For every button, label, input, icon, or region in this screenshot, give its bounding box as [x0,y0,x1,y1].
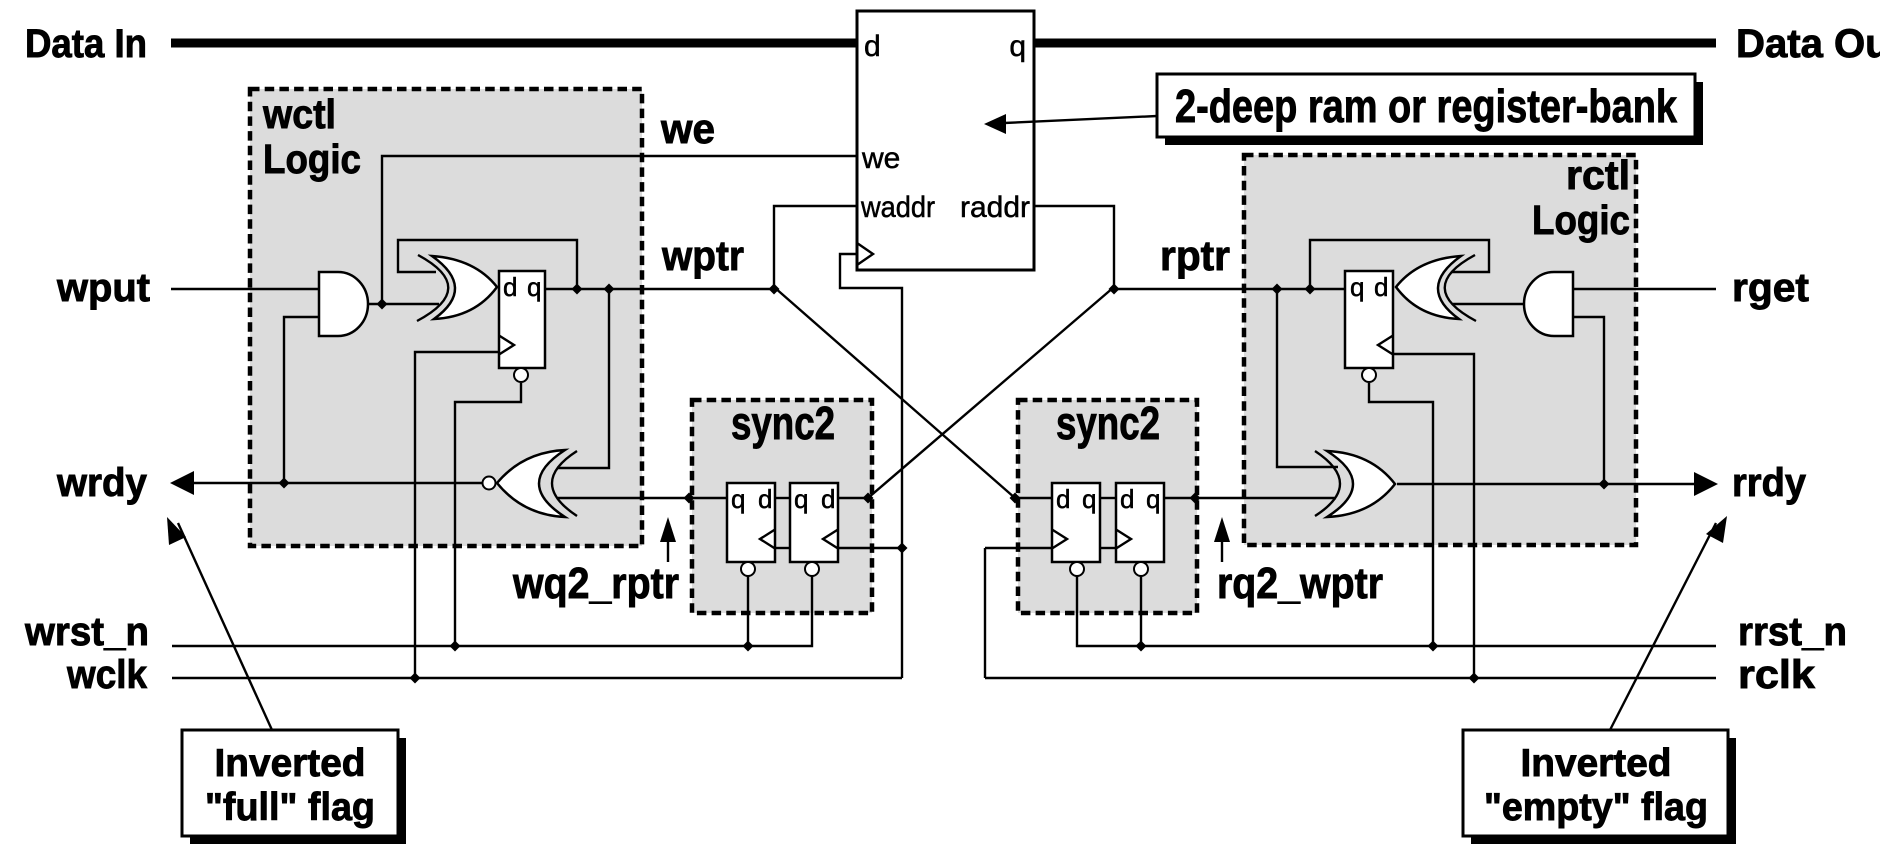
svg-text:rctl: rctl [1566,152,1630,198]
wire sync left FF1 reset [747,577,749,647]
node rptr XOR junction [1272,284,1283,295]
node wptr waddr junction [769,284,780,295]
flip-flop rptr register [1345,271,1393,368]
wire rptr to left sync2 diagonal [868,287,1114,498]
wire wptr to XNOR top input [557,289,609,468]
svg-text:rget: rget [1732,266,1809,310]
wire sync right FF2 q stub [1164,497,1195,499]
svg-text:wrdy: wrdy [56,461,148,505]
wire AND out to XOR rctl [1453,303,1524,305]
wire wput input [171,288,319,290]
node wq2 sync edge junction [684,493,695,504]
full flag arrowhead [167,517,186,545]
wire rptr to rrdy XOR top input [1277,289,1338,467]
svg-text:rq2_wptr: rq2_wptr [1217,559,1383,608]
svg-text:q: q [1146,484,1160,514]
svg-text:Logic: Logic [1532,197,1630,243]
svg-text:q: q [794,484,808,514]
XNOR gate wctl (wrdy) [497,450,565,517]
flip-flop sync left FF1 [727,483,775,562]
svg-text:2-deep ram or register-bank: 2-deep ram or register-bank [1175,80,1677,132]
svg-text:wptr: wptr [661,232,744,279]
wire rptr FF clock [1393,354,1474,678]
node wclk tap [410,673,421,684]
XOR gate rctl [1396,256,1461,319]
svg-text:wclk: wclk [66,653,148,697]
node wptr XNOR junction [604,284,615,295]
wire sync right clock mid [1100,547,1116,549]
flip-flop sync right FF1 [1052,483,1100,562]
wire wptr to right sync2 diagonal [774,287,1015,498]
wire AND out to XOR (we node) [368,303,439,305]
wire sync right FF1-FF2 [1100,497,1116,499]
svg-text:"empty" flag: "empty" flag [1484,786,1708,829]
callout shadow [1165,82,1703,145]
wire wptr FF reset [455,383,521,646]
svg-text:d: d [503,272,517,302]
svg-text:Logic: Logic [263,136,361,182]
node rrdy feedback junction [1599,479,1610,490]
svg-text:waddr: waddr [860,191,935,224]
node rptr raddr junction [1109,284,1120,295]
wire rq2_wptr to XOR [1195,497,1336,499]
rq2_wptr pointer arrow [1221,542,1223,562]
flip-flop sync right FF2 [1116,483,1164,562]
rctl Logic block boundary [1244,155,1636,545]
svg-text:wput: wput [56,266,150,310]
svg-text:sync2: sync2 [731,397,835,449]
node rptr feedback junction [1305,284,1316,295]
wire rptr net [1114,288,1345,290]
svg-text:d: d [864,30,881,63]
flip-flop wptr register [499,271,545,368]
wire wptr net [545,288,774,290]
wire sync left clock mid [775,547,790,549]
wire wq2_rptr to XNOR [558,497,727,499]
wire rclk line [985,677,1716,679]
node wrdy feedback junction [279,478,290,489]
AND gate rctl [1524,272,1573,336]
AND gate wctl [319,272,368,336]
wire rrdy out [1397,483,1703,485]
callout box 2-deep ram or register-bank [1157,74,1695,137]
svg-text:Inverted: Inverted [1521,742,1672,785]
svg-text:d: d [1056,484,1070,514]
node wptr feedback junction [572,284,583,295]
svg-text:sync2: sync2 [1056,397,1160,449]
wire sync right clock left [985,547,1052,549]
svg-text:rclk: rclk [1738,653,1816,697]
empty flag arrow line [1610,523,1716,730]
svg-text:d: d [821,484,835,514]
Inverted full flag shadow [190,738,406,844]
svg-text:Data In: Data In [25,22,147,66]
svg-text:we: we [861,142,900,175]
svg-text:wrst_n: wrst_n [24,610,149,654]
svg-text:wctl: wctl [262,91,336,137]
wire wrdy out [188,482,482,484]
svg-text:q: q [731,484,745,514]
node wclk sync junction [897,543,908,554]
node right sync input junction [1010,493,1021,504]
node rclk tap [1469,673,1480,684]
wire rclk riser [984,548,986,678]
svg-text:q: q [527,272,541,302]
wire rget input [1573,288,1716,290]
empty flag arrowhead [1706,516,1727,543]
wire wrdy feedback to AND [284,317,319,483]
callout leader line [1004,116,1157,123]
full flag arrow line [178,523,272,730]
svg-text:we: we [660,105,715,152]
rrdy arrowhead [1694,472,1718,496]
svg-text:"full" flag: "full" flag [205,786,375,829]
flip-flop sync left FF2 [790,483,838,562]
svg-text:q: q [1009,30,1026,63]
2-deep RAM / register bank block [857,11,1034,270]
wire rptr feedback to XOR [1310,240,1489,289]
svg-text:wq2_rptr: wq2_rptr [512,559,679,608]
node rrst_n tap [1428,641,1439,652]
Inverted empty flag shadow [1471,738,1736,844]
wire sync right input stub [1015,497,1052,499]
wire wptr feedback to XOR [398,240,577,289]
RAM clock wedge [857,243,873,265]
svg-text:rrst_n: rrst_n [1738,610,1847,654]
wire waddr [774,206,857,289]
wire wclk to RAM and sync [840,254,902,678]
wire sync left FF1-FF2 [775,497,790,499]
wire sync left clock right [838,547,902,549]
node rrst_n sync tap [1136,641,1147,652]
wrdy arrowhead [170,471,194,495]
svg-text:Data Out: Data Out [1736,22,1880,66]
wctl Logic block boundary [250,89,642,546]
XOR gate wctl [432,256,497,319]
svg-text:Inverted: Inverted [215,742,366,785]
sync2 block boundary (right) [1018,400,1197,613]
node left sync input junction [863,493,874,504]
svg-text:rrdy: rrdy [1732,461,1807,505]
svg-text:q: q [1350,272,1364,302]
wire rptr FF reset [1369,383,1433,646]
XNOR output bubble [483,477,496,490]
wq2_rptr pointer arrow [667,542,669,562]
node rq2 sync edge junction [1190,493,1201,504]
wire Data Out bus [1034,39,1716,48]
wire sync left FF2 d stub [838,497,868,499]
wire raddr [1034,206,1114,287]
wire wrst_n line [172,577,812,647]
node wrst_n sync tap [743,641,754,652]
wire Data In bus [171,39,857,48]
wire sync right FF2 reset [1140,577,1142,647]
svg-text:d: d [1120,484,1134,514]
svg-text:d: d [758,484,772,514]
XOR gate rctl (rrdy) [1327,451,1395,517]
svg-text:raddr: raddr [960,191,1030,224]
wire wclk line [172,677,902,679]
wire rrdy feedback to AND [1573,317,1604,484]
node wrst_n tap [450,641,461,652]
sync2 block boundary (left) [692,400,872,613]
wire wptr FF clock [415,352,499,678]
Inverted full flag box [182,730,398,836]
callout arrowhead [984,114,1006,134]
wire we to RAM [382,156,857,304]
Inverted empty flag box [1463,730,1728,836]
wire rrst_n line [1077,577,1716,647]
svg-text:d: d [1374,272,1388,302]
svg-text:rptr: rptr [1160,232,1230,279]
node we junction [377,299,388,310]
svg-text:q: q [1082,484,1096,514]
